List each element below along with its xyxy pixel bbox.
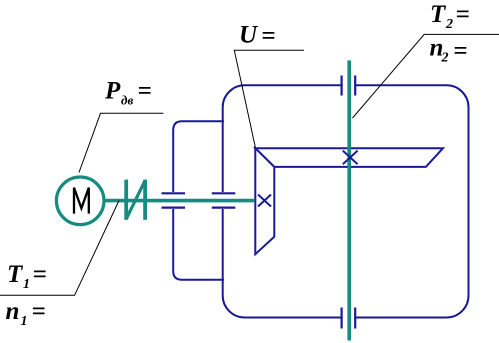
bearing B4 caps (bottom wall, output shaft) [341, 308, 343, 329]
leader line for U label [234, 50, 304, 148]
svg-text:2: 2 [445, 17, 453, 32]
leader line for T2/n2 labels [353, 34, 499, 118]
bevel wheel (horizontal trapezoid on output shaft) [255, 148, 443, 167]
motor circle M [56, 177, 104, 225]
bearing B2 caps (main wall, input shaft) [212, 192, 236, 194]
input shaft (horizontal, teal) [104, 199, 254, 203]
coupling left bar [124, 180, 128, 220]
coupling diagonal [126, 180, 145, 219]
input bearing housing (small left housing) [173, 121, 224, 279]
motor letter M [74, 188, 89, 214]
white gap in left wall at input bearing 1 [170, 192, 177, 209]
white gap in main wall at input bearing 2 [220, 192, 228, 209]
svg-text:1: 1 [23, 277, 30, 292]
leader line for P label [79, 113, 163, 172]
svg-text:2: 2 [441, 51, 449, 66]
svg-text:T: T [430, 1, 447, 28]
svg-text:n: n [6, 298, 20, 325]
bevel pinion (vertical trapezoid on input shaft) [255, 148, 274, 254]
gearbox main housing [223, 85, 469, 317]
coupling right bar [143, 180, 147, 220]
svg-text:1: 1 [21, 314, 28, 329]
svg-text:дв: дв [121, 93, 133, 108]
svg-text:=: = [261, 22, 275, 49]
svg-text:U: U [239, 22, 259, 49]
leader line for T1/n1 labels [0, 201, 119, 296]
bearing B3 caps (top wall, output shaft) [341, 76, 343, 96]
cross mark on pinion (shaft-gear joint) [258, 195, 271, 207]
bearing B1 caps (left wall, input shaft) [162, 192, 186, 194]
white gap in top wall at output bearing top [343, 82, 355, 89]
svg-text:=: = [33, 261, 47, 288]
svg-text:=: = [456, 1, 470, 28]
svg-text:P: P [104, 78, 121, 105]
output shaft (vertical, teal) [347, 60, 351, 340]
svg-text:=: = [453, 37, 467, 64]
cross mark on wheel (shaft-gear joint) [343, 151, 358, 165]
svg-text:=: = [32, 298, 46, 325]
svg-text:=: = [138, 78, 152, 105]
white gap in bottom wall at output bearing bottom [343, 314, 355, 321]
svg-text:T: T [7, 261, 24, 288]
